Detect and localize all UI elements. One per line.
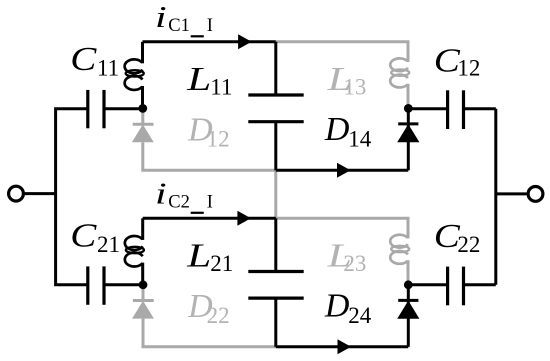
node B2 junction dot xyxy=(404,280,413,289)
svg-text:21: 21 xyxy=(97,232,120,257)
svg-text:11: 11 xyxy=(97,55,119,80)
wire bottom rail cell 2 xyxy=(276,345,409,348)
capacitor C11 xyxy=(88,90,104,128)
capacitor C1 (multiplier capacitor, cell 1) xyxy=(248,95,303,122)
diode D24 xyxy=(397,285,419,347)
svg-text:13: 13 xyxy=(343,75,366,100)
capacitor C22 xyxy=(448,267,464,306)
svg-text:D: D xyxy=(324,111,350,148)
svg-text:C1: C1 xyxy=(168,16,190,36)
wire input stub xyxy=(25,192,56,195)
svg-text:i: i xyxy=(155,0,167,34)
inductor L13 (gray coil) xyxy=(390,43,409,108)
label i_C2_I xyxy=(155,176,213,213)
svg-text:i: i xyxy=(155,176,167,211)
svg-text:12: 12 xyxy=(207,126,230,151)
wire D22 anode to bottom rail (gray) xyxy=(143,319,276,347)
svg-text:D: D xyxy=(324,288,350,325)
svg-text:24: 24 xyxy=(348,303,372,328)
wire C21 to node A2 xyxy=(104,283,143,286)
svg-text:12: 12 xyxy=(457,55,480,80)
wire gray top rail cell 2 xyxy=(276,218,408,236)
diode D12 (gray) xyxy=(132,108,154,142)
capacitor C21 xyxy=(88,266,104,304)
wire C11 to node A xyxy=(104,107,143,110)
capacitor C2 (multiplier capacitor, cell 2) xyxy=(248,272,303,299)
wire left input bus xyxy=(56,109,88,285)
svg-text:C2: C2 xyxy=(168,193,190,213)
wire output stub xyxy=(496,192,527,195)
wire rail to multiplier capacitor cell 2 xyxy=(274,218,277,271)
wire output bus xyxy=(494,109,497,285)
svg-text:I: I xyxy=(207,193,213,213)
svg-text:22: 22 xyxy=(207,303,230,328)
input terminal xyxy=(9,186,24,201)
diode D22 (gray) xyxy=(132,285,154,319)
current arrow i_C1_I xyxy=(238,34,252,49)
node A junction dot xyxy=(138,104,147,113)
wire rail to multiplier capacitor cell 1 xyxy=(274,42,277,95)
wire C22 to output bus xyxy=(464,283,496,286)
wire top rail cell 2 xyxy=(143,217,276,220)
svg-text:11: 11 xyxy=(210,75,232,100)
wire C12 to output bus xyxy=(464,107,496,110)
wire top rail cell 1 xyxy=(143,40,276,43)
svg-text:21: 21 xyxy=(210,251,233,276)
diode D14 xyxy=(397,108,419,170)
node A2 junction dot xyxy=(139,280,148,289)
wire multiplier capacitor to lower rail cell 1 xyxy=(274,122,277,171)
svg-text:23: 23 xyxy=(343,251,366,276)
capacitor C12 xyxy=(448,90,464,129)
svg-text:22: 22 xyxy=(457,232,480,257)
inductor L11 (black coil) xyxy=(125,42,144,109)
inductor L23 (gray coil) xyxy=(390,219,409,284)
wire node B to C12 xyxy=(408,107,447,110)
output terminal xyxy=(528,187,543,202)
wire D12 anode to lower rail (gray) xyxy=(143,142,276,170)
node B junction dot xyxy=(404,104,413,113)
label i_C1_I xyxy=(155,0,213,36)
wire multiplier capacitor to bottom rail cell 2 xyxy=(274,298,277,347)
svg-text:C: C xyxy=(70,39,97,77)
svg-text:C: C xyxy=(70,216,97,254)
svg-text:I: I xyxy=(207,16,213,36)
wire gray link between cell 1 and cell 2 xyxy=(274,170,277,218)
wire gray top rail cell 1 xyxy=(276,42,408,60)
svg-text:14: 14 xyxy=(348,126,372,151)
current arrow lower rail cell 1 xyxy=(337,163,351,178)
wire lower rail cell 1 xyxy=(276,169,409,172)
svg-text:L: L xyxy=(186,237,211,275)
current arrow i_C2_I xyxy=(237,211,251,226)
current arrow bottom rail cell 2 xyxy=(338,339,352,354)
svg-text:L: L xyxy=(186,60,211,98)
inductor L21 (black coil) xyxy=(125,218,144,284)
wire node B2 to C22 xyxy=(408,283,447,286)
